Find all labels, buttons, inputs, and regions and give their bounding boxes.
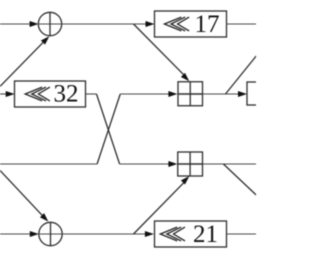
arrowhead into xor U1 bottom — [41, 36, 49, 44]
wire lane2 into adder A1 — [120, 93, 170, 95]
wire diagonal lane3 down right — [223, 164, 256, 195]
adder A2 (boxed plus) — [178, 152, 203, 176]
arrowhead into xor U1 — [30, 21, 39, 27]
wire diagonal into xor U1 (from left edge) — [0, 43, 43, 87]
rotate box R21 — [155, 221, 227, 247]
arrowhead into rot box R32 — [6, 91, 15, 97]
wire lane2 after adder — [203, 93, 240, 95]
rotate box R32 — [15, 81, 86, 107]
arrowhead into xor U2 top — [40, 213, 48, 221]
wire rot32 output — [86, 93, 97, 95]
wire diagonal into xor U2 (from left edge) — [0, 170, 43, 216]
wire lane1 left — [0, 23, 31, 25]
wire lane3 left — [0, 163, 97, 165]
svg-text:21: 21 — [193, 221, 218, 248]
chevrons R32 — [25, 87, 50, 101]
chevrons R21 — [160, 227, 185, 241]
wire lane3 right — [203, 163, 257, 165]
wire lane4 left — [0, 233, 31, 235]
wire crossing B (up) — [97, 94, 120, 164]
arrowhead into adder A2 — [168, 161, 177, 167]
xor U1 (circle plus) — [38, 12, 61, 35]
arrowhead into adder A2 bottom — [181, 176, 189, 184]
adder A1 (boxed plus) — [178, 82, 203, 106]
arrowhead into rot box R21 — [145, 231, 154, 237]
wire lane1 right — [227, 23, 257, 25]
svg-text:32: 32 — [54, 81, 79, 108]
arrowhead into adder A1 top — [181, 73, 189, 81]
arrowhead into adder A1 — [168, 91, 177, 97]
wire diagonal lane1 to adder A1 — [134, 24, 184, 75]
box at right edge (clipped) — [247, 82, 265, 105]
xor U2 (circle plus) — [39, 222, 62, 245]
arrowhead into right box — [238, 91, 247, 97]
wire lane4 right — [227, 233, 257, 235]
wire lane3 into adder A2 — [120, 163, 170, 165]
wire crossing A (down) — [97, 94, 120, 164]
wire lane2 stub — [0, 93, 8, 95]
wire lane4 mid — [62, 233, 146, 235]
rotate box R17 — [155, 11, 227, 37]
svg-text:17: 17 — [195, 11, 220, 38]
wire lane1 mid — [62, 23, 147, 25]
chevrons R17 — [164, 17, 189, 31]
wire diagonal lane2 up right — [226, 56, 257, 94]
arrowhead into xor U2 — [30, 231, 39, 237]
wire diagonal lane4 to adder A2 — [134, 183, 184, 234]
arrowhead into rot box R17 — [146, 21, 155, 27]
